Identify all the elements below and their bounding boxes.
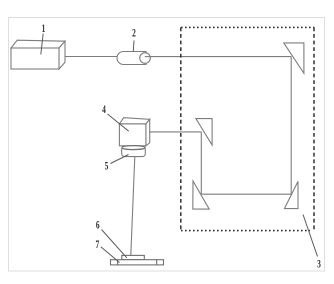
mirror M2 mid-left [196,119,212,145]
leader line for 4 [108,114,129,131]
svg-text:5: 5 [105,160,109,173]
wire: laser 1 to collimator 2 [65,56,117,58]
leader line for 1 [41,34,43,55]
svg-text:4: 4 [102,103,106,116]
mirror M1 top-right [284,43,304,73]
lens ellipse of 5 [122,146,145,150]
laser box 1 [11,40,65,69]
mirror M3 bottom-left [193,181,209,209]
mirror M4 bottom-right [284,181,298,208]
svg-text:7: 7 [95,238,99,251]
wire: collimator 2 into cavity to mirror M1 [145,56,291,58]
wire: horizontal beam mirror M4 to mirror M3 [201,193,291,195]
wire: vertical beam from lens 5 to sample 6 [131,157,135,256]
dashed cavity box 3: top dotted edge [181,26,314,28]
lens circle of 2 [140,53,151,64]
camera box 4 [119,118,149,146]
wire stub through lens circle [145,56,152,58]
leader line for 7 [101,247,120,263]
svg-text:1: 1 [42,22,46,35]
svg-text:3: 3 [317,258,321,271]
wire: vertical beam mirror M1 to mirror M4 [290,57,292,195]
wire: horizontal beam mirror M2 to camera 4 [149,131,202,133]
leader line for 5 [111,155,129,164]
dashed cavity box 3: bottom dotted edge [181,230,310,232]
lens barrel 5 [122,149,146,157]
svg-text:6: 6 [96,219,100,232]
sample 6 [122,255,145,259]
leader line for 2 [132,41,135,52]
collimator cylinder 2 [117,52,146,65]
stage left clamp divider [117,260,119,265]
svg-text:2: 2 [132,27,136,40]
stage plate 7 [111,260,164,265]
stage right clamp divider [156,260,158,265]
dashed cavity box 3: right dashed edge [313,27,315,231]
dashed cavity box 3: left dashed edge [180,27,182,230]
leader line for 6 [102,230,127,258]
wire: vertical beam mirror M3 to mirror M2 [200,132,202,194]
leader line for 3 [303,215,318,257]
